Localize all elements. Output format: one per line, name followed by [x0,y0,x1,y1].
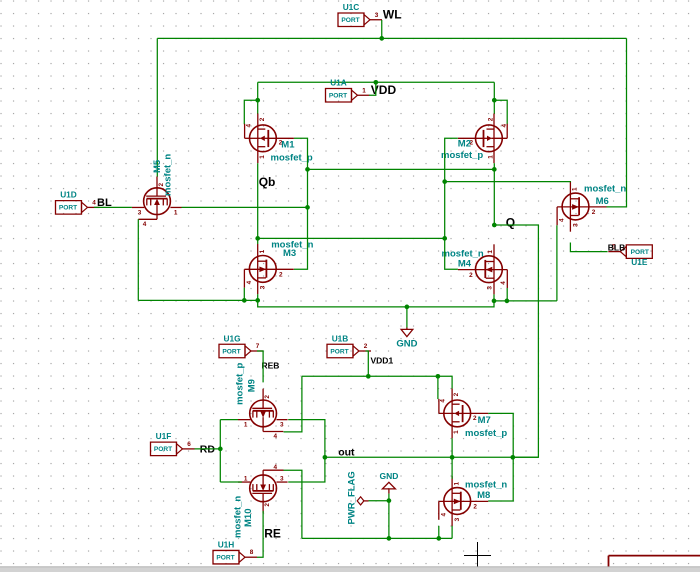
wire WL port stub [381,20,383,38]
svg-text:2: 2 [279,272,283,279]
wire VDD to M2 bulk [494,100,507,124]
title block corner [609,555,700,557]
svg-text:M8: M8 [477,490,490,501]
svg-text:4: 4 [501,123,508,127]
wire M8 bulk stub [438,526,440,539]
junction GND1 [405,305,410,310]
power symbol GND (lower, inverted) [382,482,395,489]
svg-text:mosfet_n: mosfet_n [232,496,243,538]
svg-text:mosfet_p: mosfet_p [465,428,507,439]
svg-text:PORT: PORT [341,17,359,24]
svg-text:4: 4 [274,433,278,440]
wire VDD to M1 source [257,82,259,114]
svg-text:1: 1 [453,430,460,434]
svg-text:U1B: U1B [332,333,349,343]
svg-text:2: 2 [259,117,266,121]
junction M4 source [492,299,497,304]
wire M8 drain up [488,457,513,501]
transistor M7 mosfet_p [444,400,471,427]
wire VDD to M2 source [493,82,495,114]
port WL (U1C) [338,13,364,27]
svg-text:1: 1 [244,422,248,429]
wire M6 bulk drop [556,225,558,301]
svg-text:2: 2 [364,343,368,350]
wire BL to M5 [94,206,132,208]
svg-text:mosfet_n: mosfet_n [584,184,626,195]
transistor M10 mosfet_n (rotated, flipped) [250,475,277,502]
svg-text:3: 3 [486,286,493,290]
wire GND2 drop [388,494,390,539]
wire M10 bulk drop [284,470,302,538]
wire M9 drain to out [288,420,325,458]
svg-text:2: 2 [264,395,271,399]
svg-text:M4: M4 [458,259,472,270]
junction M8 bulk [436,536,441,541]
wire Q vertical mid [445,182,458,270]
power symbol GND (upper) [406,328,408,330]
svg-text:1: 1 [259,249,266,253]
svg-text:M2: M2 [458,139,471,150]
svg-text:mosfet_p: mosfet_p [441,150,483,161]
svg-text:4: 4 [559,218,566,222]
svg-text:3: 3 [280,422,284,429]
wire M1 drain to M3 drain vertical [294,138,308,269]
svg-text:1: 1 [572,187,579,191]
wire M5 drain to Qb node [182,206,308,208]
wire VDD rail [258,81,495,83]
junction M3 source [255,298,260,303]
junction GND2-PWRFLAG [387,498,392,503]
transistor M4 mosfet_n (mirrored) [476,256,503,283]
wire WL right drop to M6 drain [607,38,627,207]
svg-text:U1E: U1E [631,257,648,267]
svg-text:VDD1: VDD1 [371,356,394,366]
svg-text:M7: M7 [478,415,491,426]
svg-text:3: 3 [572,223,579,227]
wire Q to read buffer [494,225,538,457]
svg-text:1: 1 [174,209,178,216]
junction M1 vdd split [255,98,260,103]
transistor M9 mosfet_p (rotated) [250,400,277,427]
svg-text:4: 4 [246,280,253,284]
wire PWR_FLAG stub [369,500,389,502]
svg-text:M5: M5 [152,159,163,173]
svg-text:4: 4 [245,123,252,127]
svg-text:M6: M6 [596,196,609,207]
wire M2 gate drop [493,163,495,225]
wire M2 drain to Q vertical [445,138,458,181]
svg-text:2: 2 [473,415,477,422]
svg-text:mosfet_p: mosfet_p [271,153,313,164]
svg-text:REB: REB [262,361,280,371]
wire gnd rail lower [302,537,452,539]
wire left column M9-M10 [219,420,221,482]
wire M4 source stub [493,294,495,301]
wire Qb to M2 gate [308,168,495,170]
wire M5 bulk drop [137,219,139,300]
wire VDD1 to M9 bulk [284,376,302,432]
junction VDD1 right [436,374,441,379]
svg-text:1: 1 [244,475,248,482]
junction M5-Qb [305,205,310,210]
svg-text:PORT: PORT [222,348,240,355]
wire Qb-node horizontal to Q vertical [258,237,445,239]
wire M3 bulk stub [243,288,245,301]
svg-text:8: 8 [250,549,254,556]
wire RE to M10 gate [257,511,263,557]
svg-text:U1A: U1A [330,78,347,88]
junction VDD1 port [366,374,371,379]
junction M2 gate [492,167,497,172]
svg-text:GND: GND [396,339,417,350]
svg-text:1: 1 [487,155,494,159]
wire RD to left column [195,448,221,450]
svg-text:2: 2 [264,503,271,507]
junction out drains [510,455,515,460]
wire VDD1 rail [302,375,438,377]
port RE (U1G) [213,550,239,564]
junction M3 gate node [255,236,260,241]
svg-text:out: out [338,446,355,458]
transistor M8 mosfet_n [444,488,471,515]
svg-text:3: 3 [454,517,461,521]
wire VDD to M1 bulk [244,100,257,124]
transistor M3 mosfet_n [249,256,276,283]
svg-text:U1D: U1D [60,190,77,200]
wire VDD1 port stub [366,351,369,376]
junction out left [323,455,328,460]
wire REB to M9 gate [257,351,263,382]
svg-text:BLB: BLB [608,242,625,252]
port BL (U1D) [56,201,82,215]
wire Q node to M6 gate [445,181,571,183]
svg-text:2: 2 [453,392,460,396]
svg-text:U1F: U1F [156,431,172,441]
svg-text:3: 3 [138,209,142,216]
svg-text:6: 6 [187,441,191,448]
transistor M6 mosfet_n (access) [562,193,589,220]
svg-text:U1C: U1C [343,2,360,12]
svg-text:4: 4 [500,281,507,285]
wire M7 drain down [488,413,513,457]
wire M9 left pin [220,419,238,421]
port BLB (U1E) [626,245,652,259]
svg-text:2: 2 [487,117,494,121]
svg-text:2: 2 [469,272,473,279]
junction RD [218,447,223,452]
bottom status strip [0,567,700,572]
svg-text:1: 1 [259,155,266,159]
port REB (U1C) [219,344,245,358]
junction Q mid [442,236,447,241]
svg-text:4: 4 [440,512,447,516]
svg-text:4: 4 [92,199,96,206]
svg-text:3: 3 [375,12,379,19]
svg-text:PORT: PORT [216,555,234,562]
wire VDD port stub [369,82,376,95]
svg-text:WL: WL [383,8,402,22]
wire WL left drop to M5 gate [156,38,158,176]
svg-text:1: 1 [453,481,460,485]
svg-text:2: 2 [592,209,596,216]
svg-text:7: 7 [256,343,260,350]
svg-text:3: 3 [260,285,267,289]
svg-text:1: 1 [487,250,494,254]
svg-text:M9: M9 [247,379,258,392]
svg-text:2: 2 [473,504,477,511]
svg-text:4: 4 [440,399,447,403]
svg-text:mosfet_n: mosfet_n [465,479,507,490]
svg-text:4: 4 [274,464,278,471]
junction out gates [450,455,455,460]
wire GND1 stub [406,307,408,328]
transistor M5 mosfet_n (access, rotated) [144,188,171,215]
wire M6 source to BLB [570,243,607,252]
wire M8 gate drop [451,457,453,479]
svg-text:PORT: PORT [154,446,172,453]
junction WL port [379,36,384,41]
transistor M2 mosfet_p (mirrored) [476,125,503,152]
wire WL rail [157,37,626,39]
wire M10 drain to out [288,457,325,482]
port VDD (U1A) [326,89,352,103]
wire M4 bulk stub [506,288,508,301]
svg-text:mosfet_p: mosfet_p [235,362,246,404]
wire M10 left pin [220,481,242,483]
wire VDD1 to M7 bulk [437,376,439,399]
junction Qb drain node [305,167,310,172]
svg-text:GND: GND [379,471,398,481]
svg-text:RE: RE [264,527,281,541]
svg-text:PWR_FLAG: PWR_FLAG [347,471,358,524]
svg-text:3: 3 [280,475,284,482]
junction Q upper [442,179,447,184]
wire source rail (stepped) [138,300,557,307]
junction M2 vdd split [492,98,497,103]
svg-text:mosfet_n: mosfet_n [442,248,484,259]
svg-text:U1G: U1G [223,333,240,343]
junction GND2-rail [387,536,392,541]
junction VDD port [373,80,378,85]
svg-text:PORT: PORT [330,348,348,355]
svg-text:U1H: U1H [218,540,235,550]
wire M8 source drop [451,526,453,539]
wire VDD1 to M7 source [438,376,452,388]
cursor crosshair [464,555,491,557]
wire out horizontal [325,456,539,458]
junction M3 bulk [242,298,247,303]
transistor M1 mosfet_p [250,125,277,152]
svg-text:PORT: PORT [59,205,77,212]
svg-text:Qb: Qb [259,175,276,189]
power flag PWR_FLAG [357,497,364,505]
svg-text:PORT: PORT [631,249,649,256]
wire M7 gate drop [451,438,453,457]
wire M3 source stub [257,294,259,300]
svg-text:mosfet_n: mosfet_n [163,154,174,196]
wire M1 gate to node Qb vertical [257,163,259,244]
svg-text:1: 1 [362,87,366,94]
junction M4 bulk [505,299,510,304]
port RD (U1F) [151,442,177,456]
svg-text:M1: M1 [281,139,295,150]
svg-text:4: 4 [143,221,147,228]
svg-text:M10: M10 [243,509,254,527]
svg-text:Q: Q [506,216,515,230]
port VDD1 (U1B) [327,344,353,358]
junction Q label node [492,223,497,228]
svg-text:PORT: PORT [329,93,347,100]
